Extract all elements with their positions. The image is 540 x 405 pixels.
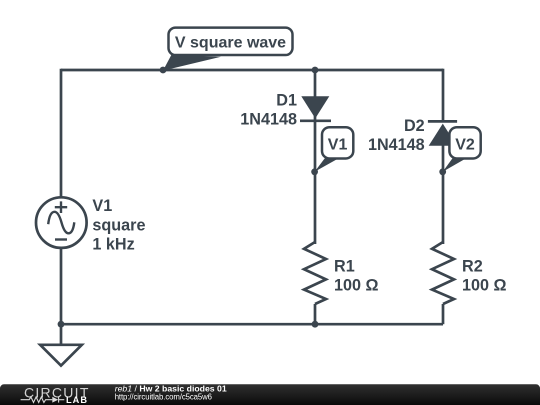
ground xyxy=(40,345,82,366)
svg-text:D2: D2 xyxy=(404,117,425,135)
wire left lower xyxy=(60,248,63,345)
wire D1 to R1 xyxy=(314,121,317,244)
flag V1 xyxy=(315,127,354,172)
svg-text:V1: V1 xyxy=(92,197,112,215)
svg-text:100 Ω: 100 Ω xyxy=(334,277,379,295)
resistor R1 xyxy=(304,242,326,304)
label D2 xyxy=(368,117,425,154)
voltage source V1 xyxy=(36,197,87,248)
label D1 xyxy=(240,92,297,129)
node V1 flag xyxy=(311,168,318,175)
diode D2 xyxy=(428,121,457,145)
node V square wave xyxy=(160,67,167,74)
label R2 xyxy=(462,257,507,294)
svg-text:R2: R2 xyxy=(462,257,483,275)
logo resistor-diode glyph xyxy=(21,397,65,403)
svg-text:R1: R1 xyxy=(334,257,355,275)
svg-text:1N4148: 1N4148 xyxy=(240,111,297,129)
svg-text:LAB: LAB xyxy=(66,395,88,405)
svg-text:http://circuitlab.com/c5ca5w6: http://circuitlab.com/c5ca5w6 xyxy=(115,392,212,401)
node ground xyxy=(58,321,65,328)
node R1 bottom xyxy=(312,321,319,328)
svg-text:100 Ω: 100 Ω xyxy=(462,277,507,295)
resistor R2 xyxy=(432,242,454,304)
wire R2 bottom lead xyxy=(442,304,445,324)
flag V2 xyxy=(443,127,481,172)
wire D1 branch upper xyxy=(314,70,317,121)
svg-text:V square wave: V square wave xyxy=(175,34,286,51)
label R1 xyxy=(334,257,379,294)
wire R1 bottom lead xyxy=(314,304,317,324)
node D1 top xyxy=(312,67,319,74)
wire D2 to R2 xyxy=(442,145,445,244)
diode D1 xyxy=(300,96,331,121)
svg-text:1N4148: 1N4148 xyxy=(368,136,425,154)
wire top horizontal xyxy=(61,69,443,72)
node V2 flag xyxy=(439,168,446,175)
svg-text:1 kHz: 1 kHz xyxy=(92,236,134,254)
wire bottom horizontal xyxy=(61,323,443,326)
wire D2 branch upper xyxy=(442,69,445,122)
svg-text:V1: V1 xyxy=(328,136,348,153)
label V1 source xyxy=(92,197,145,253)
flag V square wave xyxy=(163,28,293,71)
wire left upper xyxy=(60,69,63,198)
svg-text:V2: V2 xyxy=(455,136,475,153)
svg-text:square: square xyxy=(92,216,145,234)
svg-text:D1: D1 xyxy=(276,92,297,110)
